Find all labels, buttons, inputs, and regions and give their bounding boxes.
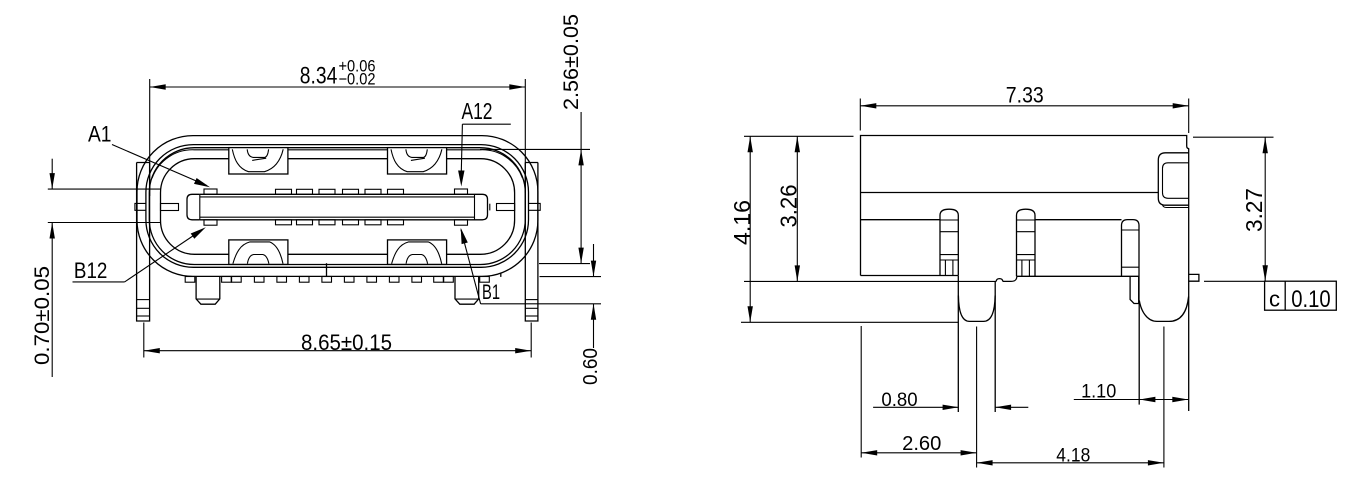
svg-text:2.56±0.05: 2.56±0.05: [560, 14, 583, 110]
svg-text:0.10: 0.10: [1291, 286, 1330, 313]
svg-text:0.70±0.05: 0.70±0.05: [31, 266, 54, 365]
svg-text:A12: A12: [462, 98, 493, 124]
svg-text:3.27: 3.27: [1241, 188, 1267, 232]
svg-text:−0.02: −0.02: [339, 71, 376, 89]
svg-text:7.33: 7.33: [1006, 83, 1044, 108]
svg-text:c: c: [1269, 287, 1280, 312]
svg-text:0.80: 0.80: [881, 389, 917, 411]
svg-text:8.65±0.15: 8.65±0.15: [301, 330, 392, 355]
svg-text:4.18: 4.18: [1056, 445, 1090, 467]
svg-text:1.10: 1.10: [1081, 380, 1116, 402]
svg-text:8.34: 8.34: [300, 63, 338, 90]
svg-text:A1: A1: [88, 121, 112, 146]
svg-text:B12: B12: [74, 258, 108, 283]
svg-text:4.16: 4.16: [729, 200, 755, 245]
svg-text:B1: B1: [482, 281, 500, 304]
svg-text:2.60: 2.60: [902, 433, 941, 455]
svg-text:0.60: 0.60: [580, 348, 602, 385]
svg-text:3.26: 3.26: [775, 185, 801, 228]
